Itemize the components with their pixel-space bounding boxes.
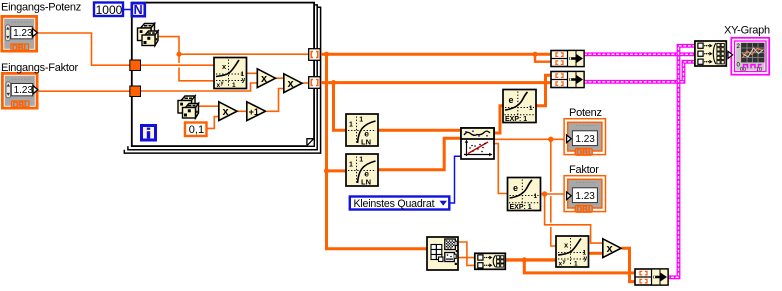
wire: LN1 output to fit VI bbox=[378, 129, 462, 132]
svg-text:1.23: 1.23 bbox=[575, 134, 595, 145]
bundle 3 bbox=[635, 269, 668, 285]
natural log LN 1 bbox=[346, 114, 378, 147]
wire: vertical D factor to multiply 4 upper input bbox=[545, 194, 603, 243]
multiply 3 bbox=[219, 102, 237, 121]
wire: array Y from tunnel 2 to bundle 2 bbox=[321, 81, 552, 84]
svg-text:Potenz: Potenz bbox=[569, 107, 602, 119]
wire gap bbox=[177, 63, 180, 68]
wire: multiply 4 output to bundle 3 second input bbox=[622, 248, 636, 281]
decimate array bbox=[427, 237, 458, 270]
constant 0,1 bbox=[185, 123, 207, 137]
wire: branch down to bundle 1 second input bbox=[535, 54, 552, 62]
wire: left tunnel 2 to multiply 1 lower input bbox=[141, 83, 257, 91]
wire: constant 0,1 to multiply 3 lower input bbox=[207, 117, 219, 129]
svg-text:DBL: DBL bbox=[576, 148, 593, 157]
wire: constant 1000 to N terminal bbox=[123, 9, 131, 11]
wire: Eingangs-Faktor control to left tunnel 2 bbox=[38, 90, 130, 92]
Faktor indicator bbox=[564, 176, 605, 214]
XY-Graph terminal bbox=[731, 38, 769, 75]
svg-text:1.23: 1.23 bbox=[13, 28, 33, 39]
for loop frame main border bbox=[132, 3, 314, 147]
wire: left tunnel 1 to power function x input bbox=[141, 64, 216, 66]
svg-text:DBL: DBL bbox=[12, 43, 29, 52]
wire: vertical A from tunnel1 wire down to LN2 and decimate bbox=[327, 54, 428, 249]
svg-text:Eingangs-Faktor: Eingangs-Faktor bbox=[1, 62, 79, 74]
wire: fit intercept output down to EXP2 bbox=[494, 144, 509, 194]
wire: branch down to bundle 3 first input bbox=[524, 260, 635, 273]
exponential EXP 2 bbox=[508, 178, 541, 212]
numeric control Eingangs-Faktor bbox=[2, 73, 38, 109]
random number generator dice 1 bbox=[138, 24, 159, 46]
svg-text:0,1: 0,1 bbox=[189, 124, 204, 136]
wire: cluster bundle 2 to build array input 3 bbox=[584, 62, 695, 82]
wire: vertical B from tunnel2 wire down to LN1 bbox=[334, 83, 347, 131]
random number generator dice 2 bbox=[178, 96, 199, 118]
enum constant Kleinstes Quadrat bbox=[350, 197, 450, 211]
Potenz indicator bbox=[564, 119, 605, 157]
left tunnel 1 (Potenz) bbox=[130, 60, 141, 71]
wire: fit best-fit output to EXP1 bbox=[494, 106, 504, 133]
wire: LN2 output to fit VI second input bbox=[378, 138, 462, 170]
left tunnel 2 (Faktor) bbox=[130, 86, 141, 97]
wire: multiply 2 to right tunnel 2 bbox=[303, 82, 310, 84]
svg-text:XY-Graph: XY-Graph bbox=[724, 25, 770, 37]
wire: dice1 branch to right tunnel 1 bbox=[179, 53, 309, 55]
wire: multiply 3 to increment bbox=[238, 110, 247, 112]
constant 1000 bbox=[94, 3, 123, 17]
wire: power function 2 output to multiply 4 bbox=[589, 252, 603, 255]
wire: cluster bundle 1 to build array input 2 bbox=[584, 52, 695, 56]
wire: Eingangs-Potenz control to left tunnel 1 bbox=[38, 33, 130, 65]
wire: build array to XY-Graph terminal bbox=[726, 52, 732, 56]
wire: decimate output 1 to build array lower input bbox=[458, 242, 475, 265]
bundle 2 bbox=[551, 72, 584, 88]
power function x^y inside loop bbox=[214, 58, 247, 90]
wire: cluster bundle 3 up to build array input 1 bbox=[667, 46, 696, 277]
wire: multiply 1 to multiply 2 bbox=[276, 77, 284, 79]
wire: power function to multiply 1 bbox=[246, 72, 258, 74]
iteration terminal i bbox=[142, 126, 156, 141]
linear fit VI bbox=[461, 128, 494, 159]
wire: increment to multiply 2 lower input bbox=[267, 89, 284, 112]
svg-text:1.23: 1.23 bbox=[14, 85, 34, 96]
wire: decimate output 2 to build array upper input bbox=[458, 257, 475, 259]
svg-text:1000: 1000 bbox=[96, 3, 123, 17]
wire: dice2 to multiply 3 bbox=[198, 105, 219, 107]
power function x^y bottom bbox=[556, 236, 589, 268]
svg-text:DBL: DBL bbox=[13, 100, 30, 109]
wire: vertical C slope to power function base bbox=[551, 139, 557, 246]
increment +1 bbox=[247, 102, 266, 121]
wire: array X from tunnel 1 to bundle 1 bbox=[321, 53, 552, 56]
right tunnel 1 auto-indexing bbox=[309, 49, 321, 61]
bundle 1 bbox=[551, 51, 584, 67]
loop count terminal N bbox=[132, 3, 145, 17]
for loop frame (stacked pages, layer 3) bbox=[124, 5, 320, 153]
numeric control Eingangs-Potenz bbox=[2, 16, 38, 52]
build array 2-input bbox=[475, 253, 506, 269]
wire gap bbox=[549, 223, 553, 227]
multiply 1 bbox=[257, 69, 275, 88]
svg-text:+1: +1 bbox=[249, 107, 259, 117]
multiply 4 bbox=[603, 239, 621, 258]
multiply 2 bbox=[284, 74, 302, 93]
right tunnel 2 auto-indexing bbox=[309, 77, 321, 89]
XY-Graph input arrow bbox=[728, 51, 733, 58]
svg-text:N: N bbox=[134, 3, 143, 17]
wire: dice1 output branch down to power function bbox=[157, 37, 215, 81]
wire: fit slope output to Potenz indicator bbox=[494, 138, 567, 140]
svg-text:Kleinstes Quadrat: Kleinstes Quadrat bbox=[354, 198, 435, 210]
svg-text:Eingangs-Potenz: Eingangs-Potenz bbox=[1, 2, 81, 14]
build array 3-input bbox=[695, 41, 726, 66]
wire gap bbox=[549, 192, 553, 196]
exponential EXP 1 bbox=[503, 90, 536, 124]
wire: EXP2 output to Faktor indicator bbox=[540, 193, 567, 195]
svg-text:DBL: DBL bbox=[576, 205, 593, 214]
svg-text:1.23: 1.23 bbox=[575, 191, 595, 202]
wire: EXP1 output to bundle 2 first input bbox=[536, 75, 552, 106]
wire: build array output to power function lower input bbox=[505, 258, 556, 261]
svg-text:Faktor: Faktor bbox=[569, 164, 599, 176]
natural log LN 2 bbox=[346, 154, 378, 187]
wire: method dropdown to fit VI bbox=[450, 156, 462, 203]
